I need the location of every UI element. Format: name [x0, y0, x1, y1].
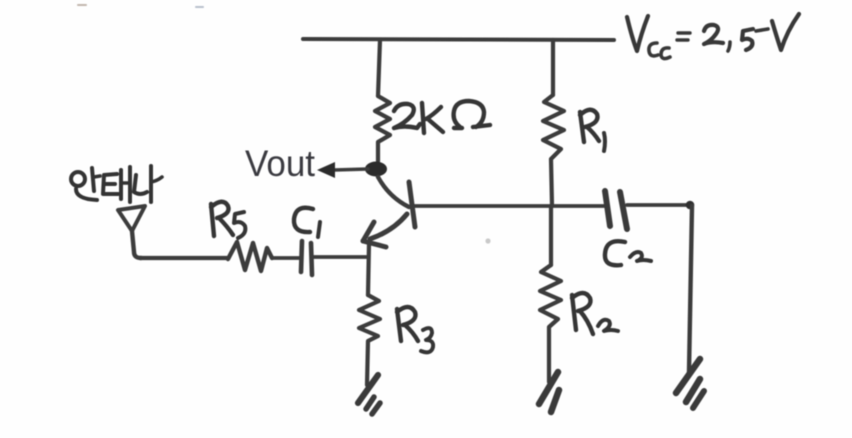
- node Vout junction dot: [365, 162, 387, 177]
- wire R5 to C1: [272, 256, 300, 260]
- wire C1 to emitter junction: [313, 255, 368, 259]
- wire C2 to right vertical: [627, 203, 692, 207]
- capacitor C2 right plate: [620, 192, 627, 229]
- transistor Q1 emitter lead with arrow: [370, 214, 407, 239]
- wire base to bias divider: [414, 204, 604, 208]
- label R1: [580, 110, 605, 151]
- ground right: [676, 359, 700, 393]
- svg-text:Vout: Vout: [245, 143, 316, 184]
- wire top Vcc rail: [303, 39, 614, 40]
- wire R1 branch from rail: [551, 40, 555, 95]
- label R5: [211, 202, 245, 238]
- capacitor C1 right plate: [311, 243, 312, 275]
- resistor R1: [543, 95, 564, 206]
- capacitor C2 left plate: [605, 191, 610, 226]
- label antenna (Korean): [71, 166, 162, 202]
- wire Vout arrow: [334, 169, 368, 170]
- resistor R2: [540, 265, 561, 382]
- wire collector branch from rail: [378, 40, 380, 96]
- label R2: [572, 293, 618, 334]
- wire R2 branch below node: [549, 206, 553, 265]
- label 2KOhm: [394, 101, 490, 133]
- ground below R2: [539, 372, 558, 404]
- wire right vertical down: [689, 206, 692, 372]
- wire antenna to R5: [140, 256, 228, 260]
- resistor R3: [359, 295, 380, 385]
- faint smudge dot: [485, 238, 490, 243]
- label C1: [294, 208, 320, 237]
- ground below R3: [358, 375, 378, 403]
- capacitor C1 left plate: [301, 241, 302, 272]
- antenna symbol: [118, 206, 145, 231]
- label Vcc = 2.5V: [627, 14, 799, 59]
- transistor Q1 base bar: [409, 182, 415, 227]
- faint page marks top: [78, 4, 86, 6]
- resistor R5: [228, 242, 272, 271]
- transistor Q1 collector lead (curve from node to bar): [378, 177, 409, 207]
- resistor 2kOhm (collector load): [375, 96, 390, 161]
- label C2: [605, 241, 651, 265]
- wire emitter down to junction with C1: [368, 243, 369, 295]
- node at right corner: [686, 201, 695, 210]
- label R3: [397, 307, 433, 352]
